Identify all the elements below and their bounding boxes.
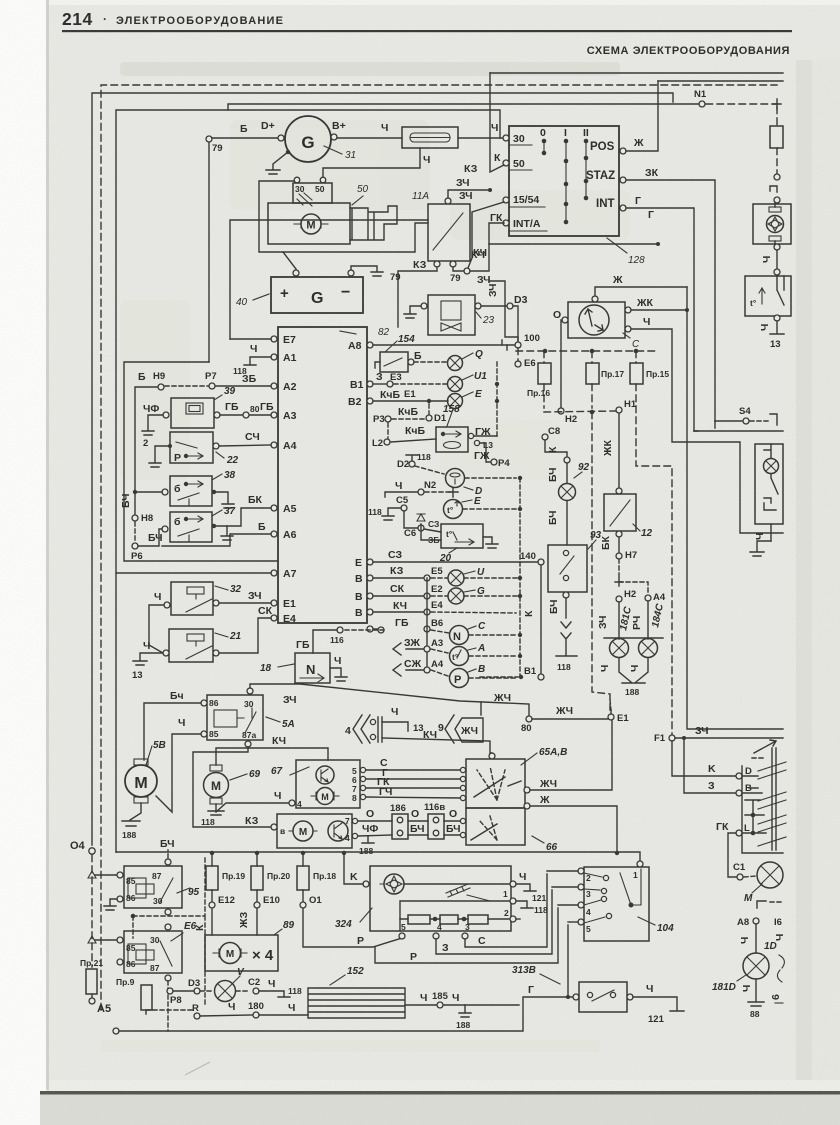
svg-text:ГБ: ГБ: [225, 401, 239, 413]
svg-text:87a: 87a: [242, 730, 256, 740]
svg-text:U1: U1: [474, 371, 487, 382]
svg-text:69: 69: [249, 769, 261, 780]
fuse Pr18: [302, 853, 304, 866]
svg-text:Пр.17: Пр.17: [601, 369, 624, 379]
svg-text:СХЕМА ЭЛЕКТРООБОРУДОВАНИЯ: СХЕМА ЭЛЕКТРООБОРУДОВАНИЯ: [587, 45, 790, 57]
svg-text:116в: 116в: [424, 802, 445, 813]
thermal switch 13: [745, 276, 791, 316]
relay 37: [170, 512, 212, 542]
svg-text:М: М: [306, 220, 315, 232]
svg-text:N: N: [453, 631, 461, 643]
svg-text:A2: A2: [283, 381, 297, 393]
wire B1 row E3: [373, 383, 386, 385]
svg-text:К: К: [523, 610, 535, 617]
svg-text:30: 30: [153, 896, 163, 906]
generator G (31): [285, 116, 331, 162]
svg-text:116: 116: [330, 635, 344, 645]
svg-text:30: 30: [513, 133, 525, 145]
row 2 BCh: [358, 835, 392, 836]
svg-text:Ч: Ч: [274, 790, 281, 802]
svg-text:Ч: Ч: [774, 934, 786, 941]
svg-text:E12: E12: [218, 895, 235, 906]
svg-text:М: М: [211, 779, 221, 793]
wire GB row B6: [373, 628, 378, 630]
wire A2 row with H9 P7: [135, 387, 157, 514]
svg-text:СЗ: СЗ: [388, 549, 402, 561]
svg-text:БЧ: БЧ: [120, 493, 132, 508]
wire K to column D: [672, 741, 735, 776]
svg-text:КЗ: КЗ: [245, 815, 259, 827]
node C6 and diode: [404, 511, 417, 528]
svg-text:121: 121: [648, 1014, 665, 1025]
svg-text:Ч: Ч: [154, 591, 161, 603]
node A4 lamp: [645, 595, 651, 601]
speed sensor D: [415, 466, 444, 474]
svg-text:Ч: Ч: [739, 937, 751, 944]
wiper switch 65A,B: [466, 759, 525, 808]
svg-text:118: 118: [288, 986, 302, 996]
node C5 ground: [401, 505, 407, 511]
ignition switch 128: [509, 126, 619, 236]
tachometer N: [431, 630, 449, 633]
svg-text:I: I: [564, 127, 567, 139]
svg-text:313B: 313B: [512, 965, 536, 976]
svg-text:C2: C2: [248, 977, 260, 988]
svg-text:188: 188: [359, 846, 373, 856]
svg-text:Ч: Ч: [178, 717, 185, 729]
wire Ch N2: [385, 492, 417, 497]
relay 12 riser ZhK: [618, 414, 620, 491]
svg-text:100: 100: [524, 333, 540, 344]
svg-text:B: B: [355, 607, 363, 619]
wire A8 to node 100: [373, 344, 518, 346]
svg-text:H9: H9: [153, 371, 165, 382]
gear indicator N box 18: [295, 653, 330, 683]
svg-text:ЗБ: ЗБ: [242, 373, 257, 385]
lamp U1: [448, 377, 463, 392]
generator ground: [266, 152, 288, 174]
svg-text:E10: E10: [263, 895, 280, 906]
wires 104 left: [547, 870, 578, 872]
svg-text:E: E: [474, 496, 481, 507]
left terminals of 82: [70, 333, 786, 1034]
svg-text:БК: БК: [248, 494, 263, 506]
svg-text:B: B: [355, 573, 363, 585]
column switch assembly right: [742, 766, 783, 853]
svg-text:ЗЧ: ЗЧ: [459, 190, 473, 202]
svg-text:79: 79: [390, 272, 401, 283]
svg-text:U: U: [477, 567, 485, 578]
wire Z: [436, 890, 552, 954]
svg-text:Ч: Ч: [741, 985, 753, 992]
svg-text:B1: B1: [350, 379, 364, 391]
svg-text:22: 22: [226, 455, 239, 466]
dashed harness frame: [101, 85, 777, 1010]
designator 40: [253, 294, 269, 300]
fuse Pr15: [635, 351, 637, 363]
svg-text:C: C: [478, 621, 486, 632]
lamp 92: [566, 463, 568, 483]
svg-text:ЖЧ: ЖЧ: [539, 778, 557, 790]
svg-text:31: 31: [345, 150, 356, 161]
svg-text:1D: 1D: [764, 941, 777, 952]
svg-text:3: 3: [586, 889, 591, 899]
svg-text:A8: A8: [737, 917, 749, 928]
wire ZhCh 65 to E1: [524, 787, 530, 793]
svg-text:79: 79: [212, 143, 223, 154]
wire Zh clock top: [595, 287, 687, 296]
svg-text:ГЖ: ГЖ: [474, 450, 490, 462]
svg-text:б: б: [174, 483, 181, 495]
fusible link box: [402, 127, 458, 148]
svg-text:ЗЧ: ЗЧ: [695, 725, 709, 737]
svg-text:H2: H2: [565, 414, 577, 425]
svg-text:B+: B+: [332, 120, 346, 132]
svg-text:Ч: Ч: [599, 665, 611, 672]
svg-text:80: 80: [250, 404, 260, 414]
lamp 181D: [743, 953, 769, 979]
wire SK row E2 lamp G: [373, 595, 424, 597]
resistor block 152: [308, 988, 405, 1018]
svg-text:БЧ: БЧ: [446, 823, 461, 835]
lever shaft: [772, 748, 776, 850]
svg-text:C: C: [478, 935, 486, 947]
svg-text:67: 67: [271, 766, 283, 777]
node O4: [89, 848, 95, 854]
svg-text:t°: t°: [447, 505, 454, 515]
main connector box 82: [278, 327, 367, 623]
wire A1 ground 118: [244, 357, 271, 365]
svg-text:КЧ: КЧ: [393, 600, 407, 612]
svg-text:Ч: Ч: [423, 154, 430, 166]
svg-text:C: C: [632, 339, 640, 350]
svg-text:158: 158: [443, 404, 460, 415]
svg-text:A5: A5: [97, 1003, 111, 1015]
electric fan motor top right: [753, 204, 791, 244]
node C8: [542, 434, 548, 440]
ground 188 for lamps: [619, 658, 648, 683]
svg-text:118: 118: [557, 662, 571, 672]
svg-text:121: 121: [532, 893, 546, 903]
svg-text:4: 4: [345, 725, 351, 737]
svg-text:POS: POS: [590, 141, 615, 153]
svg-text:H7: H7: [625, 550, 637, 561]
node E1: [610, 700, 611, 710]
bottom terminals of 324: [399, 933, 405, 939]
svg-text:118: 118: [201, 817, 215, 827]
wire ZCh F1: [675, 737, 783, 739]
relay E6: [95, 939, 116, 941]
svg-text:Ч: Ч: [452, 992, 459, 1004]
svg-text:154: 154: [398, 334, 415, 345]
relay 38: [170, 476, 212, 506]
svg-text:Пр.20: Пр.20: [267, 871, 290, 881]
wire Zh 66: [524, 803, 530, 809]
svg-text:ЗК: ЗК: [645, 167, 659, 179]
svg-text:50: 50: [357, 184, 369, 195]
svg-text:O4: O4: [70, 840, 86, 852]
wire 2 row: [516, 918, 520, 920]
wire Z to column B: [682, 736, 686, 740]
switch 32: [171, 582, 213, 615]
wire GK INT/A: [489, 223, 658, 244]
svg-text:P: P: [357, 935, 364, 947]
wire KZ row E5 lamp U: [373, 577, 424, 579]
battery 40: [271, 277, 363, 313]
svg-text:88: 88: [750, 1009, 760, 1019]
thermo valve box 23: [428, 295, 475, 335]
svg-text:C6: C6: [404, 528, 416, 539]
S4 row: [715, 420, 742, 422]
svg-text:E4: E4: [431, 600, 443, 611]
svg-text:6: 6: [770, 994, 782, 1000]
svg-text:ЖЧ: ЖЧ: [460, 725, 478, 737]
svg-text:О: О: [553, 309, 561, 321]
svg-text:L3: L3: [483, 440, 493, 450]
dashed fuse bus top: [516, 350, 655, 352]
svg-text:ГБ: ГБ: [296, 639, 310, 651]
svg-text:13: 13: [132, 670, 143, 681]
svg-text:118: 118: [417, 452, 431, 462]
svg-text:G: G: [311, 290, 323, 307]
svg-text:B1: B1: [524, 666, 537, 677]
svg-text:БЧ: БЧ: [547, 510, 559, 525]
svg-text:188: 188: [122, 830, 136, 840]
svg-text:СК: СК: [258, 605, 273, 617]
svg-text:Ч: Ч: [759, 324, 771, 331]
node H1: [616, 407, 622, 413]
svg-text:STAZ: STAZ: [586, 170, 615, 182]
svg-text:КчБ: КчБ: [398, 406, 419, 418]
svg-text:B: B: [355, 591, 363, 603]
svg-text:М: М: [299, 827, 307, 838]
svg-text:Ч: Ч: [143, 640, 150, 652]
svg-text:P4: P4: [498, 458, 510, 469]
svg-text:E2: E2: [431, 584, 443, 595]
svg-text:КЧ: КЧ: [423, 729, 437, 741]
battery minus ground: [351, 266, 383, 276]
wire B2 row E1: [373, 400, 448, 402]
svg-text:Пр.19: Пр.19: [222, 871, 245, 881]
wire dashed to right edge: [706, 103, 777, 105]
svg-text:79: 79: [450, 273, 461, 284]
svg-text:М: М: [134, 775, 147, 792]
wiper relay 22: [170, 432, 213, 463]
svg-text:R: R: [192, 1003, 199, 1014]
thermo switch 20: [441, 524, 483, 548]
svg-text:Ж: Ж: [633, 137, 644, 149]
washer motor 5B: [125, 765, 157, 797]
svg-text:М: М: [226, 949, 234, 960]
svg-text:66: 66: [546, 842, 558, 853]
wire ZhK clock: [631, 309, 687, 311]
relay cluster frame: [124, 362, 277, 561]
svg-text:38: 38: [224, 470, 236, 481]
svg-text:D2: D2: [397, 459, 409, 470]
svg-text:E5: E5: [431, 566, 443, 577]
svg-text:7: 7: [345, 816, 350, 826]
svg-text:87: 87: [152, 871, 162, 881]
svg-text:5A: 5A: [282, 719, 295, 730]
wire right edge row2: [694, 430, 783, 432]
svg-text:ЧФ: ЧФ: [362, 823, 378, 835]
svg-text:E7: E7: [283, 334, 296, 346]
svg-text:М: М: [321, 792, 329, 802]
svg-text:З: З: [376, 371, 383, 383]
svg-text:КЗ: КЗ: [390, 565, 404, 577]
wire ZhK riser: [687, 287, 783, 729]
interior lamp unit right: [694, 421, 715, 431]
svg-text:Пр.16: Пр.16: [527, 388, 550, 398]
svg-text:B2: B2: [348, 396, 362, 408]
wire K riser to B1: [540, 565, 542, 674]
svg-text:P6: P6: [131, 551, 143, 562]
node 80: [526, 716, 532, 722]
wire B to generator: [212, 137, 278, 139]
wire Ch generator to fuse: [337, 137, 402, 139]
svg-text:50: 50: [315, 184, 325, 194]
svg-text:Ч: Ч: [250, 343, 257, 355]
svg-text:Пр.9: Пр.9: [116, 977, 135, 987]
svg-text:39: 39: [224, 386, 236, 397]
svg-text:ГЧ: ГЧ: [379, 786, 392, 798]
svg-text:БЧ: БЧ: [148, 532, 163, 544]
svg-text:БЧ: БЧ: [547, 467, 559, 482]
svg-text:БЧ: БЧ: [548, 599, 560, 614]
svg-text:Г: Г: [528, 984, 534, 996]
svg-text:КЧ: КЧ: [272, 735, 286, 747]
svg-text:ЖК: ЖК: [636, 297, 653, 309]
svg-text:Б: Б: [258, 521, 266, 533]
svg-text:ЗЧ: ЗЧ: [283, 694, 297, 706]
loop wire upper: [230, 220, 428, 339]
dashed row H2-H1: [544, 411, 616, 412]
svg-text:БЧ: БЧ: [410, 823, 425, 835]
svg-text:H8: H8: [141, 513, 153, 524]
svg-text:A4: A4: [283, 440, 297, 452]
svg-text:0: 0: [540, 127, 546, 139]
svg-text:З: З: [708, 780, 715, 792]
svg-text:БЧ: БЧ: [160, 838, 175, 850]
node H2: [558, 408, 564, 414]
wire ZK: [626, 180, 715, 421]
svg-text:× 4: × 4: [252, 947, 274, 964]
chevron SZh A4: [393, 664, 401, 676]
svg-text:9: 9: [438, 722, 444, 734]
svg-text:A7: A7: [283, 568, 297, 580]
svg-text:13: 13: [413, 723, 424, 734]
svg-text:K: K: [350, 871, 358, 883]
svg-text:ЗЧ: ЗЧ: [597, 615, 609, 629]
svg-text:4: 4: [437, 922, 442, 932]
svg-text:P: P: [454, 674, 461, 686]
relay 12: [604, 494, 636, 531]
svg-text:118: 118: [534, 905, 548, 915]
svg-text:Г: Г: [648, 209, 654, 221]
starter loop wire bottom: [283, 223, 428, 252]
svg-text:б: б: [174, 516, 181, 528]
cigarette lighter 39: [171, 398, 214, 428]
svg-text:Ч: Ч: [646, 983, 653, 995]
svg-text:Пр.15: Пр.15: [646, 369, 669, 379]
wiper motor unit 89: [205, 935, 278, 971]
svg-text:Ч: Ч: [643, 316, 650, 328]
svg-text:B: B: [478, 664, 485, 675]
wire 79 from 11A to bus: [398, 267, 437, 327]
svg-text:30: 30: [295, 184, 305, 194]
svg-text:Б: Б: [240, 123, 248, 135]
svg-text:Ч: Ч: [228, 1001, 235, 1013]
node N1: [699, 101, 705, 107]
node H8: [132, 515, 138, 521]
svg-text:P7: P7: [205, 371, 217, 382]
node F1: [669, 735, 675, 741]
svg-text:D3: D3: [514, 294, 528, 306]
KZ unit with motor and regulator: [277, 814, 352, 848]
svg-text:Ч: Ч: [519, 871, 526, 883]
svg-text:85: 85: [209, 729, 219, 739]
node 79 right: [453, 267, 464, 271]
fuse Pr17: [591, 351, 593, 363]
starter relay: [293, 183, 332, 203]
wire P: [375, 908, 558, 963]
svg-text:ГБ: ГБ: [260, 401, 274, 413]
svg-text:4: 4: [586, 907, 591, 917]
lamp M interior: [757, 862, 783, 888]
wire Ch fuse to ignition: [458, 137, 506, 139]
temp gauge A: [431, 649, 448, 653]
designator 50: [352, 196, 363, 205]
svg-text:Ч: Ч: [334, 655, 341, 667]
svg-text:Ч: Ч: [268, 978, 275, 990]
svg-text:82: 82: [378, 327, 390, 338]
svg-text:INT: INT: [596, 198, 615, 210]
svg-text:КЧ: КЧ: [473, 247, 487, 259]
wire to INT/A: [470, 244, 489, 271]
wire Zh POS: [626, 81, 658, 151]
svg-text:18: 18: [260, 663, 272, 674]
right terminals of 82: [70, 333, 786, 1034]
node E6: [515, 361, 521, 367]
svg-text:87: 87: [150, 963, 160, 973]
clock C: [568, 302, 625, 338]
svg-text:188: 188: [625, 687, 639, 697]
svg-text:Ч: Ч: [761, 256, 773, 263]
svg-text:214: 214: [62, 9, 93, 29]
svg-text:A4: A4: [431, 659, 444, 670]
wire 5: [567, 925, 569, 997]
svg-text:·: ·: [103, 12, 107, 26]
node 79: [206, 136, 212, 142]
svg-text:N: N: [306, 662, 315, 677]
svg-text:−: −: [341, 284, 350, 301]
wire ZCh ignition 15/54: [468, 202, 504, 268]
svg-text:Q: Q: [475, 349, 483, 360]
svg-text:A1: A1: [283, 352, 297, 364]
node column riser: [426, 578, 428, 670]
svg-text:M: M: [744, 893, 753, 904]
wire A5 BK: [214, 508, 271, 526]
wire top bus KZ: [490, 72, 783, 74]
node P6: [132, 543, 138, 549]
fuse top right: [776, 107, 778, 126]
svg-text:3: 3: [465, 922, 470, 932]
svg-text:ЗБ: ЗБ: [428, 535, 439, 545]
svg-text:Бч: Бч: [170, 690, 184, 702]
svg-text:+: +: [280, 285, 289, 302]
svg-text:65A,B: 65A,B: [539, 747, 567, 758]
svg-text:СК: СК: [390, 583, 405, 595]
